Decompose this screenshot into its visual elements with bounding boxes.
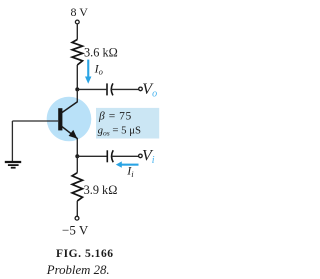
parameter box (beta, gos) — [96, 108, 159, 139]
wire (collector lead up to node) — [76, 89, 78, 102]
terminal Vo — [139, 87, 143, 91]
capacitor C2 — [107, 150, 113, 162]
wire (base lead to ground branch) — [12, 120, 58, 122]
wire (8 V terminal to R1) — [76, 24, 78, 40]
wire (ground branch vertical) — [11, 121, 13, 161]
wire (emitter node to C2) — [77, 155, 106, 157]
svg-text:Io: Io — [94, 61, 103, 76]
wire (collector node to C1) — [77, 88, 106, 90]
terminal (-5 V) — [75, 216, 79, 220]
transistor Q1 body — [47, 97, 92, 142]
svg-text:Problem 28.: Problem 28. — [46, 263, 110, 277]
capacitor C1 — [107, 83, 113, 95]
wire (R1 to collector node) — [76, 65, 78, 89]
resistor R2 3.9 kOhm — [72, 173, 82, 201]
terminal (8 V) — [75, 20, 79, 24]
wire (emitter to emitter node) — [76, 138, 78, 156]
svg-text:−5 V: −5 V — [62, 223, 89, 238]
svg-text:Ii: Ii — [126, 164, 134, 179]
current arrow Ii — [116, 161, 139, 167]
node collector junction — [75, 87, 79, 91]
wire (C2 to Vi terminal) — [112, 155, 139, 157]
wire (R2 to -5V terminal) — [76, 201, 78, 216]
wire (emitter node to R2) — [76, 156, 78, 172]
svg-text:8 V: 8 V — [71, 5, 89, 19]
svg-text:Vo: Vo — [142, 81, 157, 100]
svg-text:β = 75: β = 75 — [98, 110, 132, 122]
svg-text:FIG. 5.166: FIG. 5.166 — [56, 248, 114, 260]
node emitter junction — [75, 154, 79, 158]
svg-text:Vi: Vi — [142, 147, 155, 166]
svg-text:3.9 kΩ: 3.9 kΩ — [84, 183, 118, 197]
current arrow Io — [85, 60, 91, 84]
transistor Q1 base bar — [58, 108, 62, 130]
transistor Q1 collector lead — [62, 102, 78, 113]
ground — [5, 162, 21, 168]
svg-text:3.6 kΩ: 3.6 kΩ — [84, 46, 118, 60]
terminal Vi — [139, 154, 143, 158]
transistor Q1 emitter lead with arrow — [62, 126, 78, 139]
resistor R1 3.6 kOhm — [72, 40, 82, 66]
wire (C1 to Vo terminal) — [111, 88, 139, 90]
